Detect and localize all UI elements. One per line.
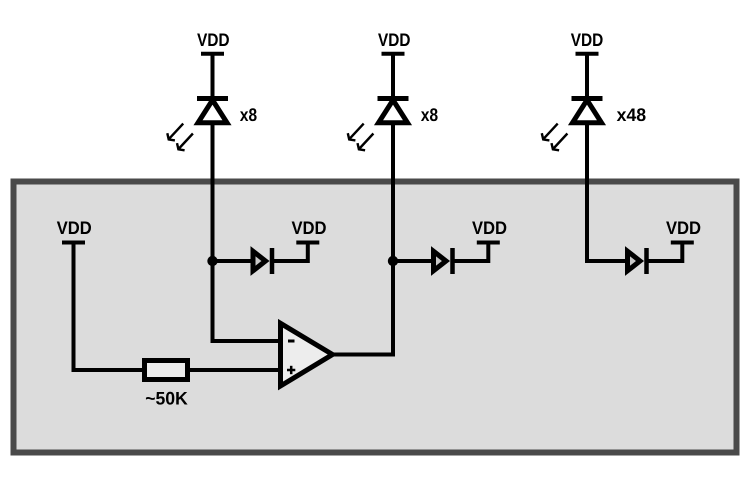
VDD power symbol at clamp diode 3 — [666, 221, 700, 242]
VDD power symbol at clamp diode 1 — [292, 221, 326, 242]
wire: resistor R1 to op-amp non-inverting input — [188, 368, 282, 372]
photodiode D3 (x48 array), cathode to VDD — [542, 99, 603, 151]
wire: clamp diode 3 cathode up to VDD stub — [647, 243, 683, 262]
VDD power symbol (bias source for R1) — [57, 221, 91, 242]
VDD power symbol above photodiode D2 — [378, 33, 410, 53]
clamp diode 3 (node to VDD) — [628, 248, 647, 274]
wire: elbow across to op-amp inverting input — [211, 339, 283, 343]
wire: VDD rail to photodiode D2 cathode — [391, 54, 395, 99]
wire: op-amp output horizontal run — [332, 353, 395, 357]
wire: node to clamp diode 3 anode — [585, 259, 629, 263]
VDD power symbol above photodiode D1 — [197, 33, 229, 53]
wire: clamp diode 2 cathode up to VDD stub — [453, 243, 489, 262]
label x8 (photodiode D1 array size) — [240, 108, 257, 121]
wire: VDD bias rail down and across to resistor R1 — [74, 243, 145, 371]
clamp diode 1 (node to VDD) — [253, 248, 272, 274]
wire: photodiode D3 anode down to clamp-diode elbow — [585, 121, 589, 261]
pin label: inverting input (-) — [288, 340, 295, 343]
op-amp U1 — [281, 323, 333, 386]
wire: clamp diode 1 cathode up to VDD stub — [272, 243, 308, 262]
node B (junction: D2 / clamp diode 2 / op-amp output) — [388, 256, 398, 266]
VDD power symbol above photodiode D3 — [571, 33, 603, 53]
clamp diode 2 (node to VDD) — [434, 248, 453, 274]
wire: op-amp output riser up to node B — [391, 261, 395, 357]
VDD power symbol at clamp diode 2 — [472, 221, 506, 242]
wire: node to clamp diode 2 anode — [393, 259, 435, 263]
photodiode D1 (x8 array), cathode to VDD — [167, 99, 228, 151]
label x8 (photodiode D2 array size) — [421, 108, 438, 121]
chip body (IC boundary) — [14, 182, 737, 453]
wire: VDD rail to photodiode D3 cathode — [585, 54, 589, 99]
wire: photodiode D2 anode down to node B — [391, 121, 395, 263]
wire: node to clamp diode 1 anode — [213, 259, 255, 263]
resistor R1 (~50K) — [145, 361, 188, 380]
wire: VDD rail to photodiode D1 cathode — [211, 54, 215, 99]
photodiode D2 (x8 array), cathode to VDD — [348, 99, 409, 151]
wire: photodiode D1 anode down through node A to inverting-input elbow — [211, 121, 215, 343]
label x48 (photodiode D3 array size) — [617, 108, 646, 121]
pin label: non-inverting input (+) — [287, 366, 295, 374]
node A (junction: D1 / clamp diode 1 / inverting input) — [207, 256, 217, 266]
label ~50K (resistor value) — [146, 392, 188, 405]
